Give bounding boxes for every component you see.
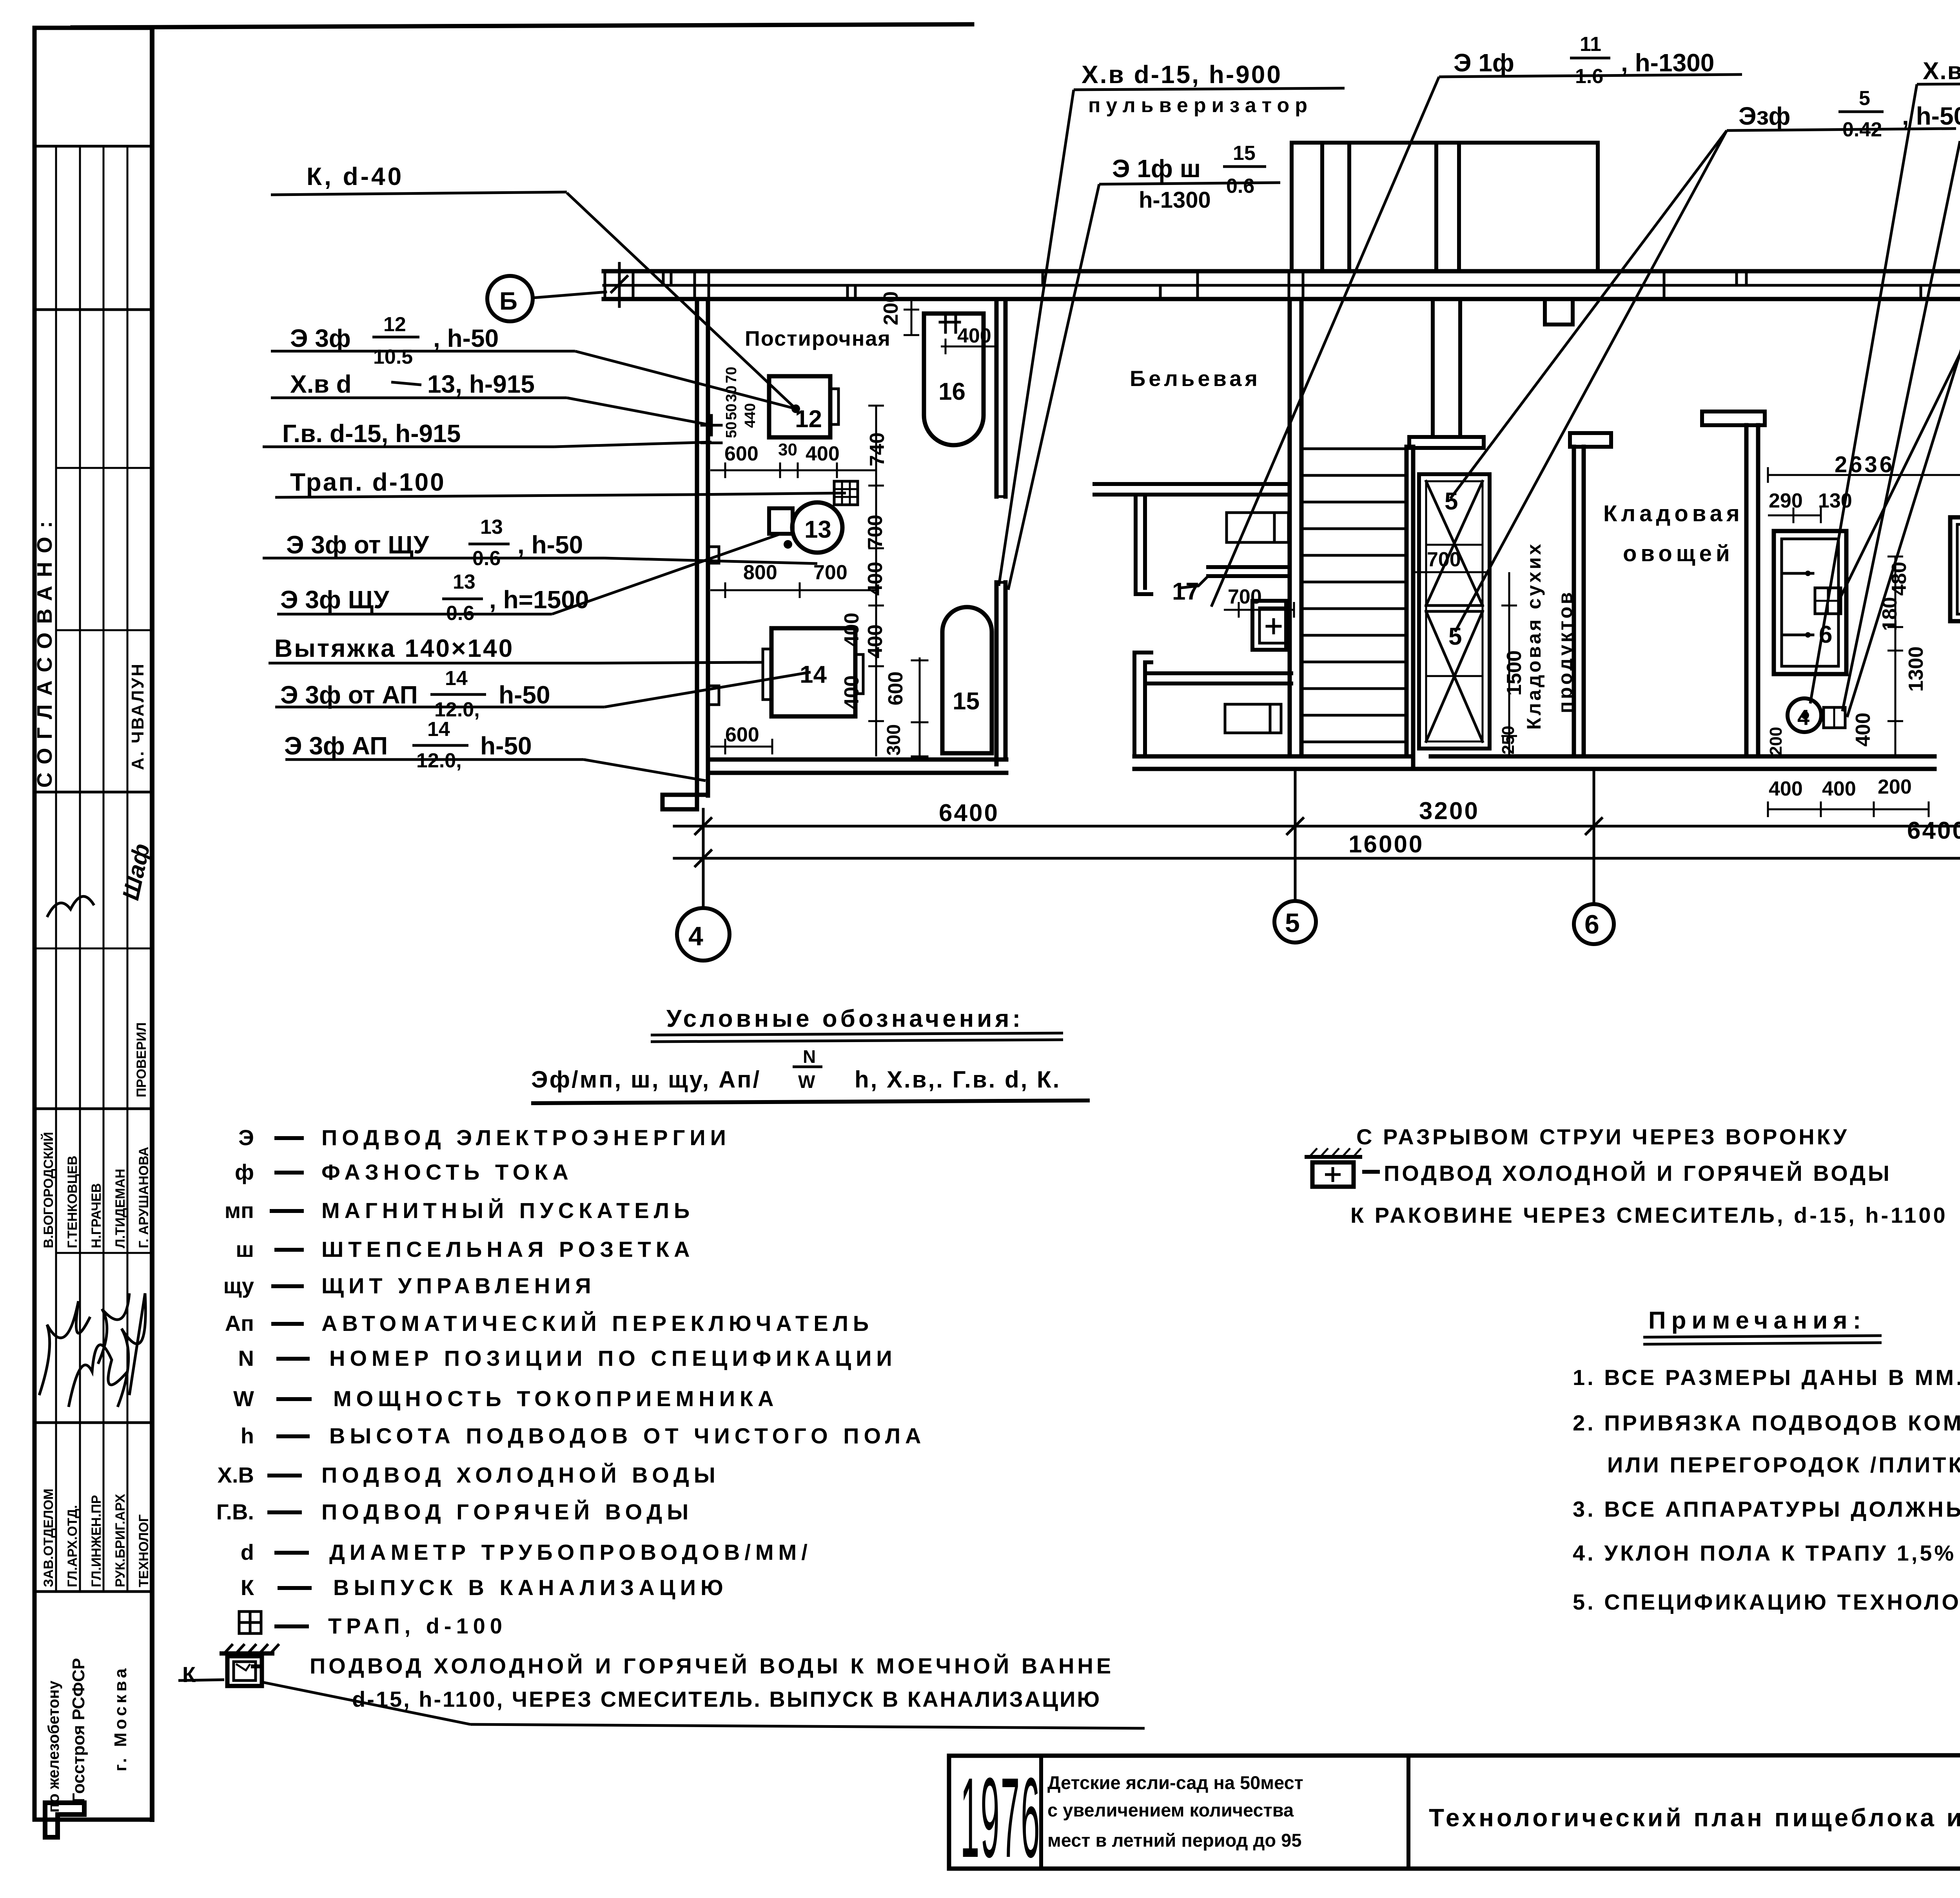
svg-text:АВТОМАТИЧЕСКИЙ ПЕРЕКЛЮЧАТЕЛЬ: АВТОМАТИЧЕСКИЙ ПЕРЕКЛЮЧАТЕЛЬ — [321, 1311, 873, 1336]
left exterior wall (axis 4) — [695, 299, 699, 809]
svg-text:3200: 3200 — [1419, 798, 1479, 825]
svg-text:N: N — [803, 1046, 816, 1067]
svg-text:А. ЧВАЛУН: А. ЧВАЛУН — [128, 662, 147, 770]
sink 17 — [1252, 601, 1286, 650]
svg-text:Э 3ф от ЩУ: Э 3ф от ЩУ — [286, 531, 430, 559]
svg-text:4: 4 — [1797, 705, 1809, 730]
svg-text:700: 700 — [1427, 548, 1461, 571]
svg-text:ПОДВОД ГОРЯЧЕЙ ВОДЫ: ПОДВОД ГОРЯЧЕЙ ВОДЫ — [321, 1499, 693, 1524]
floor trap постирочная — [834, 481, 858, 505]
partition постирочная/бельевая upper — [995, 299, 999, 497]
washing machine 12 — [769, 376, 830, 437]
dumbwaiter shaft stub below band — [1545, 299, 1573, 324]
svg-text:Л.ТИДЕМАН: Л.ТИДЕМАН — [113, 1169, 128, 1248]
svg-text:Э 1ф ш: Э 1ф ш — [1112, 154, 1201, 183]
svg-text:740: 740 — [866, 432, 889, 466]
svg-text:200: 200 — [1766, 727, 1786, 756]
svg-text:продуктов: продуктов — [1554, 590, 1576, 713]
svg-text:С РАЗРЫВОМ СТРУИ ЧЕРЕЗ ВОРОН: С РАЗРЫВОМ СТРУИ ЧЕРЕЗ ВОРОНКУ — [1356, 1124, 1849, 1149]
svg-text:пульверизатор: пульверизатор — [1088, 94, 1313, 117]
stamp column outer frame — [33, 28, 37, 1820]
svg-text:Х.В: Х.В — [218, 1463, 254, 1487]
svg-text:ТРАП, d-100: ТРАП, d-100 — [328, 1613, 507, 1638]
svg-text:ТЕХНОЛОГ: ТЕХНОЛОГ — [136, 1514, 151, 1587]
trap symbol in legend — [239, 1612, 261, 1633]
svg-text:400: 400 — [1822, 778, 1856, 800]
svg-text:400: 400 — [840, 675, 863, 709]
svg-text:12: 12 — [795, 406, 822, 433]
svg-text:30: 30 — [778, 440, 797, 459]
svg-text:Э: Э — [238, 1125, 254, 1150]
svg-text:РУК.БРИГ.АРХ: РУК.БРИГ.АРХ — [113, 1494, 128, 1587]
svg-text:70: 70 — [723, 367, 740, 383]
svg-text:ПОДВОД ХОЛОДНОЙ И ГОРЯЧЕЙ В: ПОДВОД ХОЛОДНОЙ И ГОРЯЧЕЙ ВОДЫ К МОЕЧНОЙ… — [310, 1653, 1114, 1678]
кладовая сухих продуктов left wall — [1572, 447, 1576, 756]
svg-text:мест в летний период до 95: мест в летний период до 95 — [1047, 1830, 1301, 1851]
bottom-left wall foot — [662, 793, 708, 797]
svg-text:ЗАВ.ОТДЕЛОМ: ЗАВ.ОТДЕЛОМ — [41, 1488, 56, 1587]
machine 13 (centrifuge) — [792, 502, 842, 553]
exterior wall band top: outer line — [604, 269, 1960, 274]
svg-text:h, Х.в,. Г.в. d, К.: h, Х.в,. Г.в. d, К. — [855, 1066, 1061, 1093]
square on left wall (AP) — [708, 686, 719, 705]
svg-text:1300: 1300 — [1905, 646, 1927, 692]
svg-text:ФАЗНОСТЬ ТОКА: ФАЗНОСТЬ ТОКА — [321, 1160, 573, 1184]
svg-text:W: W — [798, 1071, 815, 1092]
svg-text:Э 3ф: Э 3ф — [290, 324, 351, 352]
svg-text:Госстроя РСФСР: Госстроя РСФСР — [69, 1658, 88, 1803]
svg-text:с увеличением количества: с увеличением количества — [1047, 1800, 1294, 1820]
stove 1 — [1950, 517, 1960, 621]
svg-text:ГЛ.ИНЖЕН.ПР: ГЛ.ИНЖЕН.ПР — [89, 1495, 104, 1587]
bath 15 — [942, 607, 992, 753]
table 17 — [1208, 565, 1290, 569]
svg-text:11: 11 — [1580, 33, 1601, 56]
svg-text:Примечания:: Примечания: — [1648, 1307, 1866, 1334]
top callouts — [1082, 33, 1960, 485]
axis circle Б — [487, 276, 533, 321]
svg-text:Э 1ф: Э 1ф — [1454, 49, 1514, 77]
svg-text:Х.в, d-15, h-1500; h-900 вент: Х.в, d-15, h-1500; h-900 вентиль — [1923, 58, 1960, 85]
svg-text:10.5: 10.5 — [373, 346, 413, 368]
svg-text:Бельевая: Бельевая — [1130, 366, 1261, 391]
svg-text:14: 14 — [445, 667, 468, 690]
бельевая bottom wall — [1134, 754, 1413, 759]
underlines + leaders top callouts — [1074, 88, 1345, 90]
svg-text:1976: 1976 — [960, 1755, 1041, 1882]
svg-text:5: 5 — [1859, 87, 1870, 110]
svg-text:800: 800 — [743, 561, 777, 584]
svg-text:13: 13 — [480, 516, 503, 538]
svg-text:ЩИТ УПРАВЛЕНИЯ: ЩИТ УПРАВЛЕНИЯ — [321, 1273, 596, 1298]
svg-text:1500: 1500 — [1503, 650, 1526, 696]
window/pier ticks on band — [605, 270, 1960, 299]
svg-text:г. Москва: г. Москва — [111, 1665, 130, 1771]
svg-text:4. УКЛОН ПОЛА К ТРАПУ 1,: 4. УКЛОН ПОЛА К ТРАПУ 1,5% — [1573, 1541, 1956, 1565]
svg-text:3. ВСЕ АППАРАТУРЫ ДОЛЖНЫ: 3. ВСЕ АППАРАТУРЫ ДОЛЖНЫ БЫТЬ ЗАЗЕМЛЕНЫ … — [1573, 1497, 1960, 1521]
fraction bars top — [1223, 165, 1266, 168]
svg-text:13: 13 — [804, 516, 831, 543]
svg-text:13: 13 — [453, 571, 475, 593]
svg-text:В.БОГОРОДСКИЙ: В.БОГОРОДСКИЙ — [41, 1132, 56, 1248]
kitchen: rack 6 — [1774, 531, 1846, 674]
svg-text:Эф/мп, ш, щу, Ап/: Эф/мп, ш, щу, Ап/ — [531, 1066, 761, 1093]
svg-text:6400: 6400 — [1907, 817, 1960, 844]
svg-text:440: 440 — [742, 403, 759, 428]
machine 14 — [771, 628, 855, 716]
stair right wall — [1405, 447, 1409, 756]
stamp column row dividers — [34, 145, 152, 148]
svg-text:по железобетону: по железобетону — [45, 1680, 62, 1813]
svg-text:мп: мп — [225, 1198, 254, 1223]
svg-text:К: К — [182, 1662, 196, 1687]
shelf horizontal lower — [1147, 671, 1291, 675]
axis-5 pier on band — [1289, 271, 1303, 299]
svg-text:50: 50 — [723, 422, 740, 438]
svg-text:ПРОВЕРИЛ: ПРОВЕРИЛ — [134, 1022, 149, 1097]
svg-text:200: 200 — [880, 291, 902, 325]
svg-text:Э 3ф АП: Э 3ф АП — [284, 732, 388, 760]
bath 16 — [924, 314, 984, 445]
bottom wall кладовые — [1431, 754, 1935, 759]
svg-text:200: 200 — [1878, 776, 1912, 798]
svg-text:6: 6 — [1584, 910, 1599, 939]
dim slashes line1 — [695, 818, 1960, 866]
svg-text:17: 17 — [1172, 578, 1199, 605]
shelf rack lower — [1225, 704, 1281, 733]
svg-text:N: N — [238, 1346, 254, 1370]
svg-text:290: 290 — [1769, 489, 1803, 512]
stamp signatures scribbles — [39, 896, 145, 1407]
svg-text:Х.в d-15, h-900: Х.в d-15, h-900 — [1082, 60, 1282, 89]
svg-text:15: 15 — [1233, 142, 1256, 165]
stamp column inner verticals — [55, 146, 57, 1592]
кладовая овощей right wall — [1744, 425, 1749, 756]
svg-text:0.6: 0.6 — [1226, 175, 1254, 198]
shelving unit 5 (cross-braced) — [1419, 474, 1490, 749]
svg-text:ПОДВОД ЭЛЕКТРОЭНЕРГИИ: ПОДВОД ЭЛЕКТРОЭНЕРГИИ — [321, 1125, 731, 1150]
svg-text:ПОДВОД ХОЛОДНОЙ И ГОРЯЧЕЙ В: ПОДВОД ХОЛОДНОЙ И ГОРЯЧЕЙ ВОДЫ — [1384, 1161, 1892, 1186]
svg-text:d: d — [241, 1540, 254, 1564]
svg-text:6400: 6400 — [939, 799, 999, 827]
svg-text:СОГЛАСОВАНО:: СОГЛАСОВАНО: — [33, 513, 56, 788]
svg-text:600: 600 — [884, 671, 907, 705]
svg-text:h-50: h-50 — [480, 732, 532, 760]
shelf rack upper (белье) — [1227, 513, 1289, 542]
svg-text:300: 300 — [884, 724, 904, 756]
svg-text:1. ВСЕ РАЗМЕРЫ ДАНЫ В ММ.: 1. ВСЕ РАЗМЕРЫ ДАНЫ В ММ. — [1573, 1365, 1960, 1390]
svg-text:Шаф: Шаф — [117, 841, 155, 903]
svg-text:5: 5 — [1285, 908, 1300, 938]
svg-text:ПОДВОД ХОЛОДНОЙ ВОДЫ: ПОДВОД ХОЛОДНОЙ ВОДЫ — [321, 1463, 720, 1487]
svg-text:12: 12 — [383, 313, 406, 336]
svg-text:Г. АРУШАНОВА: Г. АРУШАНОВА — [136, 1147, 151, 1248]
stair steps — [1301, 449, 1406, 742]
svg-text:Э 3ф от АП: Э 3ф от АП — [280, 681, 418, 709]
svg-text:5. СПЕЦИФИКАЦИЮ ТЕХНОЛОГИЧЕСК: 5. СПЕЦИФИКАЦИЮ ТЕХНОЛОГИЧЕСКОГО ОБОРУДО… — [1573, 1590, 1960, 1614]
svg-text:, h=1500: , h=1500 — [489, 586, 589, 614]
svg-text:600: 600 — [725, 723, 759, 746]
axis circle 4 — [677, 908, 730, 961]
sink symbol in legend (моечная ванна) — [178, 1644, 1145, 1728]
axis-4 pier on band — [695, 271, 709, 299]
bottom wall постирочная — [708, 758, 1006, 762]
svg-text:К: К — [241, 1575, 254, 1600]
svg-text:400: 400 — [806, 442, 840, 465]
svg-text:d-15, h-1100, ЧЕРЕЗ СМЕСИТЕЛЬ: d-15, h-1100, ЧЕРЕЗ СМЕСИТЕЛЬ. ВЫПУСК В … — [352, 1687, 1101, 1711]
svg-text:НОМЕР ПОЗИЦИИ ПО СПЕЦИФИКАЦ: НОМЕР ПОЗИЦИИ ПО СПЕЦИФИКАЦИИ — [329, 1346, 897, 1370]
svg-text:16: 16 — [938, 378, 965, 405]
svg-text:ДИАМЕТР ТРУБОПРОВОДОВ/ММ/: ДИАМЕТР ТРУБОПРОВОДОВ/ММ/ — [329, 1540, 812, 1564]
svg-text:13, h-915: 13, h-915 — [427, 370, 535, 398]
svg-text:Г.в. d-15, h-915: Г.в. d-15, h-915 — [282, 419, 461, 448]
svg-text:h-50: h-50 — [499, 681, 550, 709]
svg-text:Э 3ф ЩУ: Э 3ф ЩУ — [280, 586, 390, 614]
svg-text:ГЛ.АРХ.ОТД.: ГЛ.АРХ.ОТД. — [65, 1505, 80, 1587]
svg-text:щу: щу — [223, 1273, 254, 1298]
svg-text:Вытяжка 140×140: Вытяжка 140×140 — [274, 634, 514, 662]
cross mark on bath 16 — [940, 321, 960, 324]
upper vent/stair structure above band — [1292, 143, 1598, 271]
svg-text:Детские ясли-сад на 50мест: Детские ясли-сад на 50мест — [1047, 1772, 1303, 1793]
axis circle 5 — [1274, 901, 1316, 943]
svg-text:400: 400 — [1852, 712, 1875, 747]
sink 4 kitchen — [1788, 698, 1821, 732]
svg-text:ВЫПУСК В КАНАЛИЗАЦИЮ: ВЫПУСК В КАНАЛИЗАЦИЮ — [333, 1575, 728, 1600]
gosstroy emblem — [45, 1803, 84, 1837]
svg-text:Ап: Ап — [225, 1311, 254, 1336]
legend dashes — [251, 1138, 312, 1666]
svg-text:400: 400 — [840, 613, 863, 647]
svg-text:Кладовая: Кладовая — [1603, 501, 1744, 526]
svg-text:14: 14 — [427, 718, 450, 741]
svg-text:400: 400 — [1769, 778, 1803, 800]
axis circle 6 — [1574, 904, 1614, 944]
sink symbol right (раковина с разрывом струи) — [1305, 1148, 1380, 1187]
svg-text:W: W — [233, 1386, 254, 1411]
svg-text:Трап. d-100: Трап. d-100 — [290, 468, 446, 496]
svg-text:ш: ш — [236, 1237, 254, 1262]
dimension line 6400-3200-6400 — [674, 825, 1960, 828]
dim 600/300 line — [919, 658, 921, 756]
svg-text:2. ПРИВЯЗКА ПОДВОДОВ КОММУНИ: 2. ПРИВЯЗКА ПОДВОДОВ КОММУНИКАЦИЙ ДАЕТСЯ… — [1573, 1410, 1960, 1435]
svg-text:Б: Б — [499, 287, 517, 315]
node dot on 12 — [791, 404, 800, 413]
svg-text:15: 15 — [953, 688, 980, 715]
trap square kitchen — [1815, 588, 1841, 614]
stamp rotated texts — [33, 513, 155, 1813]
svg-text:Кладовая сухих: Кладовая сухих — [1523, 542, 1545, 730]
stair left wall — [1288, 299, 1292, 756]
svg-text:400: 400 — [957, 324, 991, 347]
svg-text:2636: 2636 — [1835, 452, 1895, 477]
svg-text:50: 50 — [723, 404, 740, 420]
бельевая upper partition — [1094, 482, 1290, 486]
wall fitting crosses left wall — [702, 424, 721, 427]
small dim lines inside plan — [710, 298, 1960, 817]
small dims inside plan — [723, 291, 1960, 800]
svg-text:МОЩНОСТЬ ТОКОПРИЕМНИКА: МОЩНОСТЬ ТОКОПРИЕМНИКА — [333, 1386, 779, 1411]
svg-text:Х.в d: Х.в d — [290, 370, 352, 398]
svg-text:ф: ф — [235, 1160, 254, 1184]
бельевая lower partition wall — [1132, 653, 1136, 756]
dimension line 16000 — [674, 857, 1960, 860]
svg-text:, h-50: , h-50 — [517, 531, 583, 559]
exterior wall band inner line — [604, 297, 1960, 301]
svg-text:ВЫСОТА ПОДВОДОВ ОТ ЧИСТОГО: ВЫСОТА ПОДВОДОВ ОТ ЧИСТОГО ПОЛА — [329, 1423, 926, 1448]
stair duct hanging — [1431, 299, 1435, 437]
svg-text:ИЛИ ПЕРЕГОРОДОК /ПЛИТКИ, ШТУ: ИЛИ ПЕРЕГОРОДОК /ПЛИТКИ, ШТУКАТУРКИ/ — [1607, 1452, 1960, 1477]
svg-text:h-1300: h-1300 — [1139, 187, 1211, 213]
svg-text:Эзф: Эзф — [1739, 102, 1791, 130]
svg-text:700: 700 — [1228, 586, 1262, 608]
svg-text:Г.ТЕНКОВЦЕВ: Г.ТЕНКОВЦЕВ — [65, 1156, 80, 1248]
partition door edge lower — [995, 582, 999, 764]
svg-text:Постирочная: Постирочная — [745, 327, 891, 350]
svg-text:4: 4 — [688, 921, 703, 951]
svg-text:Н.ГРАЧЕВ: Н.ГРАЧЕВ — [89, 1183, 104, 1248]
underlines + leaders left callouts — [271, 192, 567, 195]
svg-text:h: h — [241, 1423, 254, 1448]
sheet top border line — [73, 24, 972, 27]
svg-text:Технологический план пищебло: Технологический план пищеблока и постиро… — [1429, 1804, 1960, 1832]
exterior wall band middle line — [604, 284, 1960, 287]
svg-text:, h-50: , h-50 — [433, 324, 499, 352]
svg-text:5: 5 — [1448, 623, 1462, 650]
svg-text:16000: 16000 — [1348, 831, 1424, 858]
svg-text:700: 700 — [813, 561, 848, 584]
svg-text:600: 600 — [724, 442, 759, 465]
dim tick cross at band left end — [618, 263, 621, 306]
бельевая partition T-stem — [1134, 495, 1138, 594]
svg-text:К, d-40: К, d-40 — [307, 162, 404, 190]
svg-text:Г.В.: Г.В. — [216, 1499, 254, 1524]
svg-text:К РАКОВИНЕ ЧЕРЕЗ СМЕСИТЕЛЬ,: К РАКОВИНЕ ЧЕРЕЗ СМЕСИТЕЛЬ, d-15, h-1100 — [1350, 1203, 1948, 1227]
svg-text:Условные обозначения:: Условные обозначения: — [666, 1005, 1024, 1032]
svg-text:МАГНИТНЫЙ ПУСКАТЕЛЬ: МАГНИТНЫЙ ПУСКАТЕЛЬ — [321, 1198, 694, 1223]
year 1976 — [960, 1755, 1041, 1882]
svg-text:, h-1300: , h-1300 — [1621, 49, 1714, 77]
svg-text:овощей: овощей — [1623, 541, 1734, 566]
axis stems — [702, 809, 705, 908]
svg-text:ШТЕПСЕЛЬНАЯ РОЗЕТКА: ШТЕПСЕЛЬНАЯ РОЗЕТКА — [321, 1237, 695, 1262]
